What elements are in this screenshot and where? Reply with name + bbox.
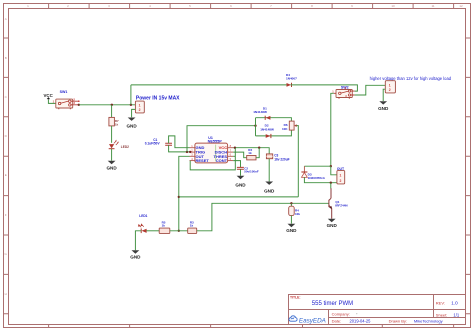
svg-text:IRFZ44N: IRFZ44N: [335, 203, 347, 207]
svg-text:MikeTechnology: MikeTechnology: [414, 319, 443, 324]
svg-text:1k: 1k: [162, 224, 166, 228]
wire C1 top jog to U1 pin1: [169, 136, 190, 148]
svg-text:H: H: [5, 292, 7, 296]
connector P3 high voltage input: [370, 76, 452, 93]
svg-text:1/1: 1/1: [453, 312, 459, 317]
wire main 15v rail: [79, 104, 136, 106]
svg-text:GND: GND: [130, 255, 141, 260]
LED LED1: [138, 214, 147, 233]
wire R7 to LED2: [111, 126, 113, 143]
svg-text:B: B: [5, 56, 7, 60]
junction collector node: [330, 182, 332, 184]
svg-text:0.1uF/50V: 0.1uF/50V: [145, 142, 161, 146]
wire D1 top branch: [256, 118, 292, 121]
svg-text:EasyEDA: EasyEDA: [299, 317, 326, 324]
ground C3: [264, 182, 275, 194]
wire D3 top to load node: [304, 165, 330, 167]
svg-text:LED2: LED2: [121, 145, 129, 149]
svg-text:TITLE:: TITLE:: [290, 296, 301, 300]
power flag VCC: [44, 93, 54, 100]
wire VCC row to C3: [233, 148, 269, 154]
junction SW1 output: [78, 104, 80, 106]
svg-text:1N4007RLG: 1N4007RLG: [308, 176, 326, 180]
wire RESET bracket: [190, 148, 235, 170]
diode D3: [301, 172, 325, 180]
wire rail to R7: [111, 105, 113, 118]
pin 3 OUT: [190, 155, 195, 157]
wire R3 to Q1 base: [197, 203, 329, 231]
ground LED2: [106, 161, 117, 171]
svg-text:Company:: Company:: [332, 312, 350, 317]
wire C1 bottom to TRIG: [169, 145, 190, 152]
junction TRIG node right: [189, 151, 191, 153]
wire R4 to ground: [290, 216, 292, 224]
wire pot wiper to riser: [296, 126, 298, 197]
svg-text:E: E: [5, 173, 7, 177]
wire P1 pin2 to ground: [132, 109, 136, 117]
svg-text:2: 2: [389, 88, 391, 92]
wire VCC to SW1 pin1: [48, 100, 55, 104]
wire riser to top rail: [130, 85, 132, 105]
wire R5 to R6a junction: [170, 230, 188, 232]
ground P1: [126, 118, 137, 129]
svg-text:10K: 10K: [282, 127, 288, 131]
pin 6 THRES: [228, 155, 234, 157]
wire R4 top: [290, 203, 292, 206]
junction rail R7 tap: [111, 104, 113, 106]
junction rail riser tap: [130, 104, 132, 106]
svg-text:GND: GND: [126, 123, 137, 128]
wire DISCH to R2: [233, 152, 247, 158]
connector P1 power in: [135, 96, 180, 113]
svg-text:10k: 10k: [295, 212, 300, 216]
wire THRES tie: [233, 155, 235, 157]
svg-text:1.0: 1.0: [451, 300, 458, 305]
resistor R2: [247, 148, 256, 160]
op... timer U1 NE555P: [190, 136, 234, 163]
svg-text:1: 1: [340, 174, 342, 178]
svg-text:16v 220uF: 16v 220uF: [274, 157, 289, 161]
diode D4: [286, 73, 297, 87]
capacitor C2: [237, 167, 259, 174]
svg-text:1: 1: [389, 83, 391, 87]
switch SW2: [332, 85, 354, 98]
ground Q1: [327, 219, 338, 228]
svg-text:GND: GND: [327, 223, 338, 228]
diode D2: [260, 123, 274, 138]
svg-text:Drawn By:: Drawn By:: [389, 319, 407, 324]
svg-text:10: 10: [391, 4, 395, 8]
svg-text:1N4007: 1N4007: [286, 77, 297, 81]
ground C2: [235, 176, 246, 188]
wire top rail to D4: [131, 84, 287, 86]
wire collector node to Q1: [330, 183, 332, 189]
wire diode network left vertical: [255, 118, 257, 136]
wire C2 to ground: [240, 169, 242, 175]
svg-text:2: 2: [139, 108, 141, 112]
svg-text:RESET: RESET: [196, 158, 210, 163]
pin 5 CONT: [228, 160, 234, 162]
wire P3 pin2 to ground: [383, 89, 385, 101]
svg-text:A: A: [5, 17, 7, 21]
svg-text:GND: GND: [235, 183, 246, 188]
pin 1 GND: [190, 147, 195, 149]
junction OUT LED tee: [178, 230, 180, 232]
svg-text:1N4148W: 1N4148W: [260, 128, 274, 132]
wire TRIG node up to diode network: [187, 126, 256, 152]
wire OUT to pot wiper riser: [179, 196, 298, 198]
diode D1: [253, 106, 270, 119]
junction diode network left node: [254, 125, 256, 127]
transistor Q1: [329, 188, 348, 218]
svg-text:GND: GND: [378, 106, 389, 111]
EasyEDA logo: [289, 316, 326, 325]
resistor R4: [289, 206, 301, 216]
junction TRIG node left: [186, 151, 188, 153]
pin 2 TRIG: [190, 151, 195, 153]
wire SW2 common down to load node: [331, 93, 334, 166]
svg-text:LED1: LED1: [139, 214, 147, 218]
wire D3 top lead: [303, 166, 305, 172]
capacitor C1: [145, 138, 172, 146]
junction base R4 tap: [290, 202, 292, 204]
svg-text:555 timer PWM: 555 timer PWM: [312, 301, 353, 307]
wire LED2 to ground: [111, 149, 113, 161]
pin 8 VCC: [228, 147, 234, 149]
svg-text:REV:: REV:: [436, 300, 445, 305]
svg-text:12: 12: [459, 4, 463, 8]
wire LED1 to R5: [147, 230, 160, 232]
svg-text:GND: GND: [286, 228, 297, 233]
resistor R5: [159, 221, 170, 234]
wire D2 bottom branch: [256, 130, 292, 136]
wire LED1 to ground: [135, 231, 141, 250]
switch SW1: [53, 90, 80, 109]
capacitor C3: [266, 154, 289, 162]
junction OUT wiper tee: [178, 196, 180, 198]
resistor R3: [188, 221, 197, 234]
ground P3: [378, 101, 389, 111]
connector OUT: [337, 167, 345, 184]
ground R4: [286, 224, 297, 233]
svg-text:11: 11: [431, 4, 434, 8]
LED LED2: [109, 140, 129, 149]
wire SW2 pin3 to connector P3 pin1: [355, 85, 386, 95]
pin 7 DISCH: [228, 151, 234, 153]
wire C3 to ground: [268, 159, 270, 182]
svg-text:higher voltage than 12v for hi: higher voltage than 12v for high voltage…: [370, 76, 452, 81]
ground LED1: [130, 250, 141, 259]
svg-text:Power IN 15v MAX: Power IN 15v MAX: [136, 96, 180, 102]
potentiometer R6 10K: [282, 121, 297, 131]
svg-text:2019-04-25: 2019-04-25: [350, 319, 372, 324]
svg-text:SW1: SW1: [60, 90, 68, 94]
wire top rail D4 to SW2: [291, 85, 358, 91]
junction load node D3 top: [330, 165, 332, 167]
svg-text:1k: 1k: [190, 224, 194, 228]
svg-text:2: 2: [340, 179, 342, 183]
pin 4 RESET: [190, 160, 195, 162]
title block: [289, 295, 466, 325]
svg-text:Date:: Date:: [332, 319, 342, 324]
svg-text:Sheet:: Sheet:: [436, 312, 448, 317]
resistor R7: [109, 117, 119, 126]
svg-text:50v/100nF: 50v/100nF: [244, 170, 259, 174]
wire D3 bottom to collector node: [304, 177, 337, 182]
wire OUT pin routing down: [179, 156, 190, 231]
svg-text:GND: GND: [106, 166, 117, 171]
svg-text:1k: 1k: [115, 123, 119, 127]
wire CONT to C2: [233, 161, 240, 168]
svg-text:F: F: [5, 213, 7, 217]
wire load node to OUT pin1: [331, 166, 337, 175]
svg-text:1N4148W: 1N4148W: [253, 110, 267, 114]
svg-text:CONT: CONT: [216, 158, 228, 163]
svg-text:1k: 1k: [248, 151, 252, 155]
junction VCC R2: [258, 147, 260, 149]
wire R2 to VCC row: [256, 148, 259, 158]
junction VCC reset bracket: [234, 147, 236, 149]
svg-text:GND: GND: [264, 188, 275, 193]
